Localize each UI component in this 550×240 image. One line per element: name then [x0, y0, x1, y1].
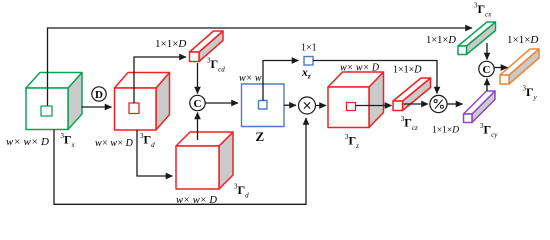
map Z (blue square) — [242, 84, 285, 127]
svg-text:w× w: w× w — [239, 73, 262, 84]
wire: Gamma_cy bar up to concat C2 — [486, 79, 488, 92]
svg-text:C: C — [483, 64, 491, 76]
svg-text:1×1×D: 1×1×D — [155, 38, 186, 50]
wire: Gamma_x to Gamma_d arrow (through D op) — [82, 106, 112, 108]
wire: x_z right then down to divide op — [313, 61, 437, 94]
wire: bottom feedback line from Gamma_x cube bottom to multiply circle — [54, 118, 306, 204]
wire: concat C2 to Gamma_y bar — [494, 67, 507, 69]
op circle divide — [430, 95, 447, 112]
tensor bar Gamma_cx (green 1x1xD) — [458, 22, 496, 55]
wire: Gamma_cz bar to divide op — [404, 103, 429, 105]
wire: Gamma_z small square out to Gamma_cz bar — [356, 105, 392, 107]
svg-text:w× w× D: w× w× D — [95, 138, 134, 149]
tensor bar Gamma_cd (red 1x1xD) — [190, 31, 224, 62]
svg-text:1×1×D: 1×1×D — [432, 126, 459, 136]
wire: multiply op to Gamma_z cube — [316, 105, 327, 107]
tensor cube Gamma_z (red) — [328, 72, 384, 128]
wire: Gamma_d small square up to Gamma_cd bar — [134, 57, 186, 103]
svg-text:w× w× D: w× w× D — [340, 63, 380, 74]
wire: Gamma_d cube down and right to second Gamma_d cube — [137, 130, 173, 176]
tensor cube Gamma_d second (red, bottom) — [176, 132, 233, 189]
tensor bar Gamma_y (orange output 1x1xD) — [500, 49, 539, 84]
op circle multiply — [299, 97, 316, 114]
op circle C2 (concat) — [479, 61, 494, 76]
tensor bar Gamma_cz (red 1x1xD) — [393, 78, 431, 111]
wire: Gamma_cx bar down to concat C2 — [486, 43, 488, 60]
svg-text:w× w× D: w× w× D — [6, 136, 49, 148]
svg-text:D: D — [95, 89, 103, 101]
wire: divide op to Gamma_cy bar — [447, 103, 462, 105]
op circle C1 (concat) — [190, 95, 205, 110]
op circle D (dilation) — [92, 87, 106, 101]
tensor cube Gamma_d (first red) — [115, 73, 170, 131]
wire: Z small square up and right to x_z — [263, 61, 299, 101]
svg-text:1×1×D: 1×1×D — [426, 35, 456, 46]
wire: concat C1 to Z map — [205, 102, 238, 104]
svg-text:1×1: 1×1 — [301, 43, 317, 54]
wire: Gamma_cd bar down to concat C1 — [197, 63, 199, 94]
tensor cube Gamma_x (green input) — [26, 73, 82, 130]
wire: Z to multiply op — [284, 104, 296, 106]
svg-text:1×1×D: 1×1×D — [393, 65, 422, 76]
tensor bar Gamma_cy (purple 1x1xD) — [464, 91, 496, 123]
svg-text:Z: Z — [256, 129, 265, 144]
wire: top feedback line from Gamma_x small square up and right to Gamma_cx bar — [48, 28, 473, 106]
wire: second Gamma_d cube up to concat C1 — [197, 113, 199, 141]
svg-text:w× w× D: w× w× D — [176, 195, 217, 206]
svg-text:C: C — [194, 98, 202, 110]
svg-text:1×1×D: 1×1×D — [507, 34, 538, 46]
node x_z (small blue square) — [304, 57, 313, 66]
